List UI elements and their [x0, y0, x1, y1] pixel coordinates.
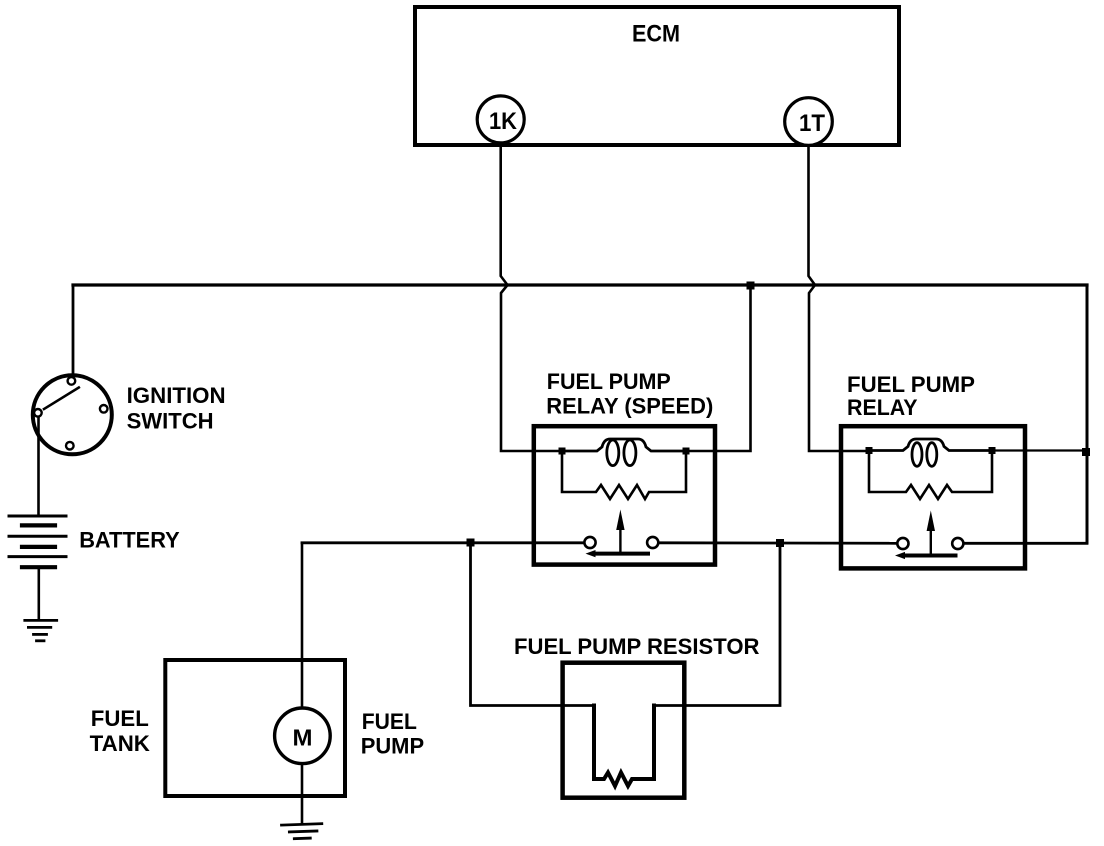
terminal 1K: [477, 96, 524, 143]
svg-text:FUEL PUMP: FUEL PUMP: [547, 369, 671, 394]
main relay armature arrow: [930, 529, 932, 553]
main relay shunt resistor: [869, 451, 992, 500]
main relay box: [841, 426, 1025, 568]
wire fuel pump resistor right to bus: [656, 543, 780, 705]
svg-text:TANK: TANK: [90, 731, 150, 756]
main relay fixed contacts: [897, 538, 908, 549]
fuel tank box: [165, 660, 345, 796]
svg-text:FUEL PUMP: FUEL PUMP: [847, 372, 975, 397]
speed relay armature arrow: [619, 529, 621, 552]
wire bottom bus right segment: [964, 542, 1087, 545]
svg-text:PUMP: PUMP: [361, 733, 424, 758]
svg-text:1T: 1T: [799, 110, 825, 137]
junction bottom bus to resistor left leg: [467, 539, 475, 547]
main relay coil terminal dots: [866, 447, 873, 454]
fuel pump resistor box: [563, 663, 685, 798]
wire fuel pump to ground: [301, 766, 304, 824]
wire bottom bus left segment: [302, 541, 584, 544]
ECM box U1: [415, 7, 899, 145]
fuel pump motor M1: [275, 708, 331, 764]
svg-text:BATTERY: BATTERY: [79, 527, 180, 552]
wire speed relay coil supply: [688, 285, 751, 451]
wire bottom bus middle segment: [659, 541, 897, 544]
svg-text:1K: 1K: [489, 108, 518, 135]
battery BT1: [9, 516, 66, 567]
svg-text:SWITCH: SWITCH: [127, 409, 214, 434]
wire bus right vertical: [1086, 285, 1089, 543]
svg-text:FUEL: FUEL: [362, 709, 417, 734]
speed relay coil terminal dots: [559, 448, 566, 455]
terminal 1T: [785, 98, 833, 146]
wire bus down to fuel pump: [301, 543, 304, 706]
wire ignition switch to battery: [37, 417, 40, 516]
junction bottom bus to resistor right leg: [776, 539, 784, 547]
svg-text:ECM: ECM: [632, 21, 680, 48]
main relay coil L2: [867, 439, 992, 466]
svg-text:RELAY (SPEED): RELAY (SPEED): [546, 394, 713, 419]
main relay movable contact bar: [903, 554, 955, 558]
junction bus to speed relay supply: [747, 282, 755, 290]
svg-text:IGNITION: IGNITION: [127, 383, 226, 408]
svg-text:M: M: [293, 724, 313, 750]
wire 1K to speed relay coil (crossover hop at ignition bus): [501, 144, 560, 451]
wire main relay coil to right bus: [992, 449, 1086, 451]
wire bus drop to ignition switch: [72, 285, 75, 375]
svg-text:RELAY: RELAY: [847, 395, 918, 420]
svg-text:FUEL PUMP RESISTOR: FUEL PUMP RESISTOR: [514, 634, 760, 659]
ground (battery): [25, 620, 57, 640]
fuel pump resistor element R1: [594, 706, 654, 787]
speed relay movable contact bar: [594, 552, 648, 556]
junction main relay coil supply: [1082, 448, 1090, 456]
svg-text:FUEL: FUEL: [91, 706, 149, 731]
wire 1T to main relay coil (crossover hop at ignition bus): [809, 146, 868, 451]
speed relay fixed contacts: [584, 537, 595, 548]
wire ignition bus horizontal: [73, 283, 1087, 286]
wire battery to ground: [37, 569, 40, 619]
wire bus to fuel pump resistor left: [471, 543, 593, 706]
speed relay coil L1: [560, 439, 688, 466]
ground (fuel pump): [282, 824, 323, 839]
speed relay shunt resistor: [562, 451, 686, 499]
ignition switch SW1: [33, 375, 112, 454]
speed relay box: [534, 426, 715, 564]
